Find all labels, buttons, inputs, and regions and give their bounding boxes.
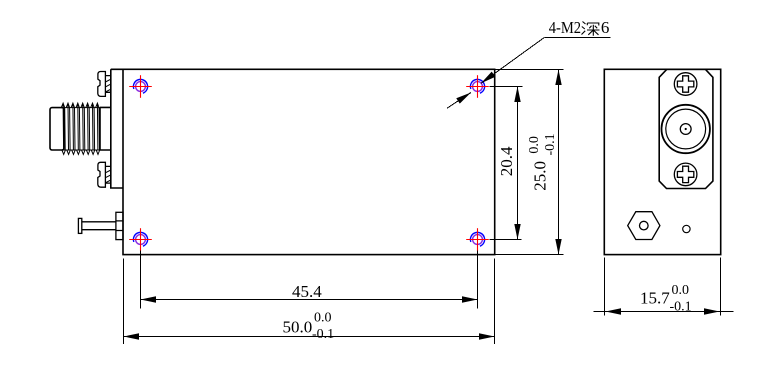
svg-text:15.7: 15.7: [640, 289, 670, 308]
svg-text:0.0: 0.0: [314, 311, 332, 326]
svg-text:0.0: 0.0: [527, 136, 542, 154]
svg-text:-0.1: -0.1: [543, 133, 558, 155]
svg-text:-0.1: -0.1: [670, 300, 692, 315]
svg-text:-0.1: -0.1: [312, 327, 334, 342]
svg-text:25.0: 25.0: [531, 161, 550, 191]
svg-text:6: 6: [601, 18, 610, 37]
svg-text:4-M2: 4-M2: [549, 18, 581, 37]
svg-text:45.4: 45.4: [292, 282, 322, 301]
svg-text:50.0: 50.0: [283, 317, 313, 336]
svg-text:20.4: 20.4: [497, 146, 516, 176]
svg-text:0.0: 0.0: [672, 283, 690, 298]
